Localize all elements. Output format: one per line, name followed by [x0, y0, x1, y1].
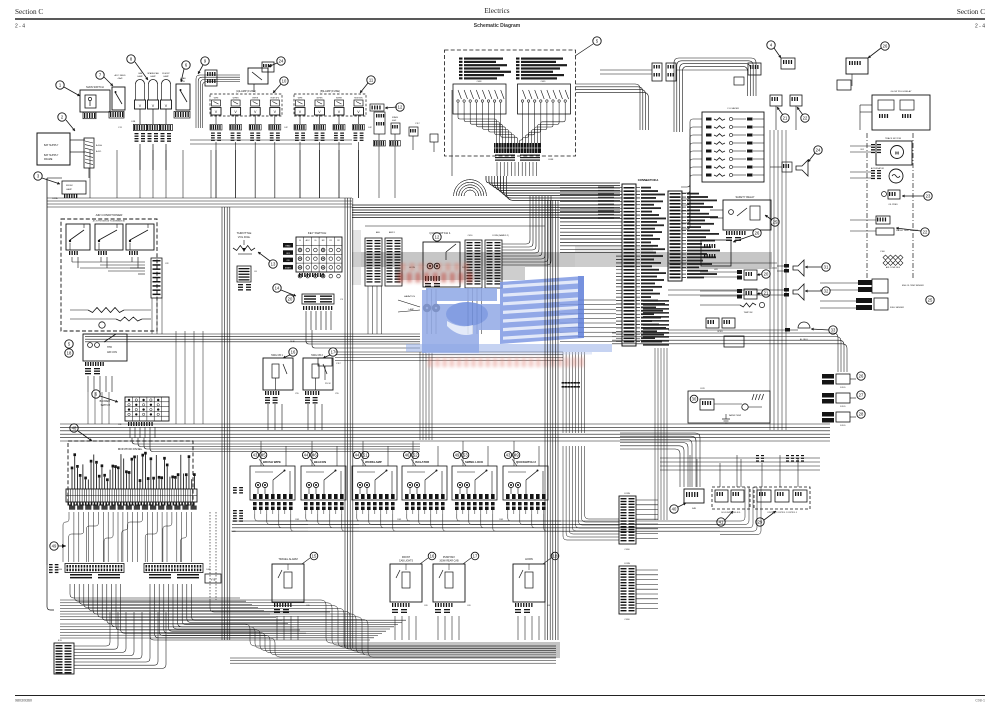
- svg-text:A.R.A: A.R.A: [96, 144, 102, 147]
- svg-text:53: 53: [463, 453, 468, 458]
- svg-text:27: 27: [859, 393, 864, 398]
- svg-text:ACC: ACC: [306, 239, 311, 242]
- svg-text:CAB LIGHTS: CAB LIGHTS: [399, 560, 414, 563]
- svg-text:BAT SUPPLY: BAT SUPPLY: [44, 144, 59, 147]
- svg-text:SPARE/CAB: SPARE/CAB: [147, 72, 159, 75]
- svg-text:40: 40: [672, 507, 677, 512]
- svg-text:43: 43: [506, 453, 511, 458]
- svg-text:C4C: C4C: [284, 127, 289, 129]
- svg-text:25: 25: [773, 220, 778, 225]
- svg-text:ACC FEED: ACC FEED: [114, 74, 125, 77]
- svg-text:CONTROL 1 CONTROL 2 CONTROL 3: CONTROL 1 CONTROL 2 CONTROL 3: [767, 512, 797, 514]
- svg-text:ALTERNATOR: ALTERNATOR: [871, 167, 885, 170]
- svg-text:WIPER: WIPER: [233, 98, 240, 100]
- svg-text:HAVA/TILN: HAVA/TILN: [404, 295, 415, 298]
- svg-text:12: 12: [435, 235, 440, 240]
- svg-text:52: 52: [413, 453, 418, 458]
- svg-text:43: 43: [253, 453, 258, 458]
- svg-text:13: 13: [271, 262, 276, 267]
- svg-text:24: 24: [816, 148, 821, 153]
- svg-text:B SOL: B SOL: [840, 406, 846, 408]
- svg-text:20: 20: [764, 272, 769, 277]
- svg-text:20: 20: [288, 297, 293, 302]
- svg-text:C090: C090: [624, 619, 630, 621]
- svg-text:FUEL SENDER: FUEL SENDER: [890, 307, 904, 309]
- svg-text:48: 48: [72, 426, 77, 431]
- svg-text:FROM: FROM: [66, 185, 73, 187]
- svg-text:21: 21: [783, 116, 788, 121]
- svg-text:ISOLATOR: ISOLATOR: [415, 460, 429, 464]
- svg-text:FDM.FP: FDM.FP: [162, 73, 170, 75]
- svg-text:10: 10: [282, 79, 287, 84]
- svg-text:24: 24: [279, 59, 284, 64]
- svg-text:33: 33: [831, 328, 836, 333]
- svg-text:44: 44: [304, 453, 309, 458]
- svg-text:BRUSH WIPE: BRUSH WIPE: [263, 460, 281, 464]
- svg-text:MONITOR PANEL: MONITOR PANEL: [118, 447, 143, 451]
- svg-text:FRAME: FRAME: [44, 158, 53, 161]
- svg-text:30: 30: [692, 397, 697, 402]
- svg-text:B.R: B.R: [861, 149, 865, 151]
- svg-text:Schematic Diagram: Schematic Diagram: [474, 23, 521, 29]
- svg-text:HIGH SPD: HIGH SPD: [354, 98, 363, 100]
- svg-text:LAMP: LAMP: [137, 75, 143, 78]
- svg-text:CONN (NAMED 2): CONN (NAMED 2): [492, 234, 509, 237]
- svg-text:C41A: C41A: [52, 197, 58, 200]
- svg-text:P.U.W: P.U.W: [325, 383, 331, 385]
- svg-text:ENG OIL TEMP SENDER: ENG OIL TEMP SENDER: [902, 285, 924, 287]
- svg-text:26: 26: [859, 374, 864, 379]
- svg-text:BEACON: BEACON: [314, 460, 326, 464]
- svg-text:22: 22: [923, 230, 928, 235]
- svg-text:HTR: HTR: [107, 346, 112, 349]
- svg-text:41: 41: [719, 520, 724, 525]
- svg-text:LOAD: LOAD: [180, 77, 186, 80]
- svg-text:26: 26: [755, 231, 760, 236]
- svg-text:OIL PRES: OIL PRES: [888, 204, 898, 206]
- svg-text:32: 32: [824, 289, 829, 294]
- svg-text:B SOL: B SOL: [840, 387, 846, 389]
- svg-text:BLOWER: BLOWER: [100, 400, 111, 403]
- svg-text:WORKLAMP: WORKLAMP: [365, 460, 382, 464]
- svg-text:M: M: [895, 151, 899, 156]
- svg-text:AL. BELL: AL. BELL: [800, 338, 808, 341]
- svg-text:C4B: C4B: [131, 121, 136, 123]
- svg-text:C/R: C/R: [165, 263, 169, 265]
- svg-text:CAB: CAB: [138, 72, 143, 75]
- svg-text:49: 49: [455, 453, 460, 458]
- svg-text:Section C: Section C: [15, 8, 43, 16]
- svg-text:LAMP: LAMP: [66, 188, 72, 191]
- svg-text:BAT SUPPLY: BAT SUPPLY: [44, 154, 59, 157]
- svg-text:START: START: [285, 266, 292, 269]
- svg-text:CONNECTOR A: CONNECTOR A: [638, 178, 659, 182]
- svg-text:C.U.SAYER: C.U.SAYER: [727, 107, 739, 110]
- svg-text:WIPE: WIPE: [298, 98, 303, 100]
- svg-text:45: 45: [261, 453, 266, 458]
- svg-text:HIGH SPD: HIGH SPD: [270, 98, 279, 100]
- svg-text:(B)LAMP (FUSE): (B)LAMP (FUSE): [320, 89, 340, 93]
- svg-text:17: 17: [473, 554, 478, 559]
- svg-text:C090: C090: [624, 549, 630, 551]
- svg-text:16: 16: [430, 554, 435, 559]
- svg-text:AMR 1: AMR 1: [389, 231, 396, 234]
- svg-text:TEMP SW: TEMP SW: [744, 312, 753, 314]
- svg-text:29: 29: [758, 520, 763, 525]
- svg-text:SWING LOCK: SWING LOCK: [465, 460, 483, 464]
- svg-text:14: 14: [275, 286, 280, 291]
- svg-text:WATER TEMP: WATER TEMP: [729, 414, 742, 417]
- svg-text:23: 23: [926, 194, 931, 199]
- svg-text:HEAT: HEAT: [285, 245, 291, 248]
- svg-text:25: 25: [928, 298, 933, 303]
- svg-text:LAMP: LAMP: [150, 75, 156, 78]
- svg-text:WIPER: WIPER: [252, 98, 259, 100]
- svg-text:15: 15: [312, 554, 317, 559]
- svg-text:SWG CB 2: SWG CB 2: [311, 354, 323, 357]
- svg-text:WIPER: WIPER: [336, 98, 343, 100]
- svg-text:C088: C088: [548, 159, 554, 161]
- svg-text:LAMP: LAMP: [163, 75, 169, 78]
- svg-text:A/C IS PROVIDED AT TO ASSEMBLE: A/C IS PROVIDED AT TO ASSEMBLED AT: [93, 220, 125, 223]
- svg-text:WIPER: WIPER: [317, 98, 324, 100]
- svg-text:(A)LAMP (FUSE): (A)LAMP (FUSE): [236, 89, 256, 93]
- svg-text:16: 16: [291, 350, 296, 355]
- svg-text:CONN: CONN: [624, 493, 630, 495]
- svg-text:A.R.1: A.R.1: [96, 150, 102, 153]
- svg-text:TRAVEL ALARM: TRAVEL ALARM: [278, 557, 297, 561]
- svg-text:MAIN SWITCH: MAIN SWITCH: [86, 85, 104, 89]
- svg-text:Section C: Section C: [957, 8, 985, 16]
- svg-text:AIR CLNR FILN: AIR CLNR FILN: [886, 266, 901, 269]
- svg-text:VYB: VYB: [211, 579, 216, 582]
- svg-text:4 A/F: 4 A/F: [117, 77, 123, 80]
- svg-text:44: 44: [355, 453, 360, 458]
- svg-text:51: 51: [363, 453, 368, 458]
- svg-text:KEY SWITCH: KEY SWITCH: [308, 231, 327, 235]
- svg-text:GLOW PLUG RELAY: GLOW PLUG RELAY: [891, 90, 912, 93]
- svg-text:SPARE: SPARE: [392, 116, 399, 119]
- svg-text:9803/9360: 9803/9360: [15, 699, 32, 703]
- svg-text:SAFETY RELAY: SAFETY RELAY: [735, 195, 754, 199]
- svg-text:46: 46: [312, 453, 317, 458]
- svg-text:C08-1: C08-1: [975, 699, 985, 703]
- svg-text:B4B: B4B: [692, 508, 696, 510]
- svg-text:49: 49: [52, 544, 57, 549]
- svg-text:12: 12: [398, 105, 403, 110]
- svg-text:46: 46: [405, 453, 410, 458]
- svg-text:11: 11: [369, 78, 374, 83]
- svg-text:28: 28: [859, 412, 864, 417]
- svg-text:31: 31: [824, 265, 829, 270]
- svg-text:22: 22: [803, 116, 808, 121]
- svg-text:WIPE: WIPE: [214, 98, 219, 100]
- svg-text:C4C: C4C: [368, 127, 373, 129]
- svg-text:AIR CONDITIONER: AIR CONDITIONER: [96, 213, 124, 217]
- svg-text:SPKR: SPKR: [717, 331, 723, 333]
- svg-text:HORN: HORN: [525, 557, 533, 561]
- svg-text:49: 49: [514, 453, 519, 458]
- svg-text:TRACK MOTOR: TRACK MOTOR: [885, 137, 902, 140]
- svg-text:18: 18: [67, 351, 72, 356]
- svg-text:CONN: CONN: [624, 563, 630, 565]
- svg-text:2 - 4: 2 - 4: [15, 24, 25, 30]
- svg-text:AIR CON: AIR CON: [107, 351, 117, 354]
- svg-text:300W REAR CAB: 300W REAR CAB: [439, 560, 459, 563]
- svg-text:Electrics: Electrics: [484, 7, 509, 15]
- svg-text:B SOL: B SOL: [840, 425, 846, 427]
- svg-text:SWG CB 1: SWG CB 1: [271, 354, 283, 357]
- svg-text:VOL DIAL: VOL DIAL: [238, 235, 251, 239]
- svg-text:26: 26: [883, 44, 888, 49]
- svg-text:QUICKHITCH 2: QUICKHITCH 2: [516, 460, 536, 464]
- svg-text:2 - 4: 2 - 4: [975, 24, 985, 30]
